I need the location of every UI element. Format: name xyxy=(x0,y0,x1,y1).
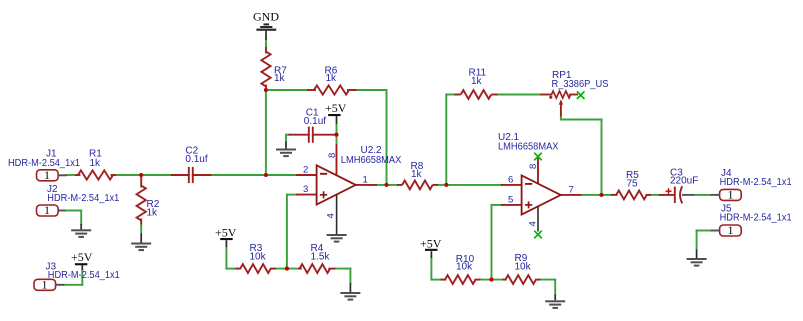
svg-text:HDR-M-2.54_1x1: HDR-M-2.54_1x1 xyxy=(8,158,80,169)
svg-text:8: 8 xyxy=(327,153,338,158)
svg-text:1k: 1k xyxy=(147,208,159,219)
svg-text:+5V: +5V xyxy=(420,237,442,251)
svg-text:HDR-M-2.54_1x1: HDR-M-2.54_1x1 xyxy=(48,270,120,281)
svg-text:+5V: +5V xyxy=(71,250,93,264)
svg-text:7: 7 xyxy=(569,185,574,196)
svg-text:1: 1 xyxy=(363,175,368,186)
svg-text:R_3386P_US: R_3386P_US xyxy=(552,79,609,90)
svg-text:1k: 1k xyxy=(411,169,423,180)
svg-text:+5V: +5V xyxy=(215,226,237,240)
svg-text:1k: 1k xyxy=(90,158,102,169)
svg-text:2: 2 xyxy=(303,165,308,176)
svg-text:75: 75 xyxy=(627,179,639,190)
svg-text:10k: 10k xyxy=(456,261,473,272)
svg-text:10k: 10k xyxy=(250,251,267,262)
svg-text:1k: 1k xyxy=(326,73,338,84)
svg-text:1: 1 xyxy=(728,223,734,237)
svg-text:3: 3 xyxy=(303,184,308,195)
svg-text:1: 1 xyxy=(44,203,50,217)
svg-text:HDR-M-2.54_1x1: HDR-M-2.54_1x1 xyxy=(720,213,792,224)
svg-text:HDR-M-2.54_1x1: HDR-M-2.54_1x1 xyxy=(720,177,792,188)
svg-text:6: 6 xyxy=(508,175,513,186)
svg-text:1k: 1k xyxy=(471,76,483,87)
svg-text:LMH6658MAX: LMH6658MAX xyxy=(498,142,559,153)
svg-text:+5V: +5V xyxy=(325,101,347,115)
svg-text:10k: 10k xyxy=(515,261,532,272)
svg-text:5: 5 xyxy=(508,195,513,206)
svg-text:1: 1 xyxy=(44,168,50,182)
svg-text:1: 1 xyxy=(728,188,734,202)
svg-text:GND: GND xyxy=(253,10,279,24)
svg-text:0.1uf: 0.1uf xyxy=(185,154,207,165)
svg-text:8: 8 xyxy=(528,164,539,169)
svg-text:1k: 1k xyxy=(274,73,286,84)
svg-text:0.1uf: 0.1uf xyxy=(304,116,326,127)
svg-text:220uF: 220uF xyxy=(670,176,698,187)
svg-text:4: 4 xyxy=(326,213,337,218)
svg-text:1.5k: 1.5k xyxy=(311,251,331,262)
svg-text:4: 4 xyxy=(528,221,539,226)
svg-text:HDR-M-2.54_1x1: HDR-M-2.54_1x1 xyxy=(47,193,119,204)
svg-text:LMH6658MAX: LMH6658MAX xyxy=(341,155,402,166)
svg-text:1: 1 xyxy=(42,278,48,292)
